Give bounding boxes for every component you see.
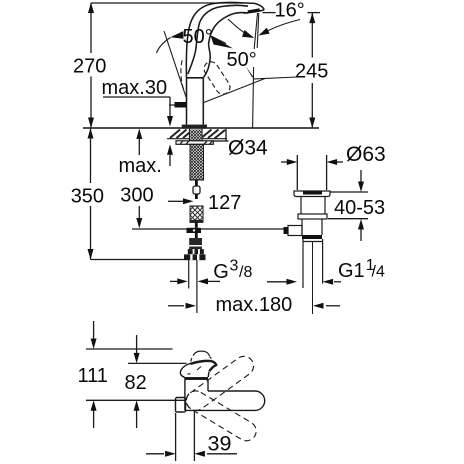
svg-text:300: 300 bbox=[120, 185, 153, 207]
svg-text:111: 111 bbox=[78, 365, 108, 387]
svg-text:16°: 16° bbox=[275, 0, 305, 22]
svg-text:270: 270 bbox=[73, 56, 106, 78]
svg-text:350: 350 bbox=[71, 186, 104, 208]
svg-text:82: 82 bbox=[125, 372, 147, 394]
svg-text:40-53: 40-53 bbox=[334, 197, 385, 219]
svg-text:3: 3 bbox=[230, 258, 239, 275]
svg-text:max.30: max.30 bbox=[102, 77, 168, 99]
svg-text:G: G bbox=[213, 261, 229, 283]
svg-text:/8: /8 bbox=[239, 264, 252, 281]
svg-text:50°: 50° bbox=[183, 26, 213, 48]
svg-text:127: 127 bbox=[208, 192, 241, 214]
svg-text:max.: max. bbox=[119, 155, 162, 177]
svg-text:245: 245 bbox=[295, 61, 328, 83]
svg-text:39: 39 bbox=[208, 432, 232, 456]
svg-text:50°: 50° bbox=[227, 49, 257, 71]
svg-text:Ø34: Ø34 bbox=[228, 137, 268, 160]
svg-text:max.180: max.180 bbox=[216, 294, 293, 316]
svg-text:G1: G1 bbox=[338, 260, 365, 282]
svg-text:Ø63: Ø63 bbox=[346, 143, 386, 166]
svg-text:/4: /4 bbox=[372, 264, 385, 281]
